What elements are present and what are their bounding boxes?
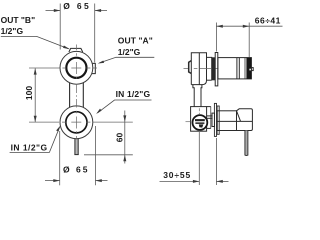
upper body block [191,53,211,85]
lower cover plate [217,106,219,134]
dim 66÷41: extension lines [215,23,217,52]
arrow dim 60 top (points down to line) [123,115,126,121]
node: right connection tab on top circle [92,63,96,73]
dim 60: extension line from pipe end [84,154,133,156]
bottom circle outer [60,106,93,139]
arrow 30÷55 left [193,180,199,183]
dim 100: dimension line [34,68,36,122]
bottom circle inner [66,112,87,133]
centerline above inlet circle [198,108,200,114]
centerline vertical through circles [75,45,77,139]
svg-text:Ø 65: Ø 65 [63,1,89,11]
svg-text:66÷41: 66÷41 [255,15,281,25]
svg-text:100: 100 [24,86,34,100]
arrow 66÷41 left [216,25,222,28]
wire: neck between circles [70,82,84,109]
arrow dim Ø65 top right [95,9,101,12]
spindle stub [251,68,253,71]
arrowheads for dimensions [34,9,127,182]
neck bottom to flange [207,79,212,81]
handle cylinder [217,111,236,131]
arrow dim Ø65 bottom right [95,179,101,182]
dim Ø65 top: extension lines [59,4,61,50]
stub from body to lower flange [207,116,213,118]
dim Ø65 top: dimension line tails [46,10,61,12]
dim 30÷55: extension lines [198,132,200,185]
centerline tick left of lower body [186,121,191,123]
leader IN left [10,127,60,152]
dim 60: dimension line [124,111,126,164]
arrow dim 60 bottom (points up to line) [123,155,126,161]
arrow dim 100 down [34,116,37,122]
lower wall flange plate [214,103,216,136]
arrow dim 100 up [34,68,37,74]
connecting pipe between bodies [193,85,202,107]
knob mid line [216,120,252,122]
arrow dim Ø65 top left [54,9,60,12]
top circle outer (OUT port boss) [60,51,93,84]
svg-text:60: 60 [115,132,125,142]
svg-text:Ø 65: Ø 65 [63,164,88,174]
lever rod [245,131,248,156]
svg-text:IN 1/2"G: IN 1/2"G [11,142,48,152]
dim 30÷55: dimension line [160,180,200,182]
dim Ø65 bottom: extension lines [59,131,61,185]
inner pipe line through body [198,53,200,85]
centerline horizontal top circle [29,67,97,69]
svg-text:1/2"G: 1/2"G [1,26,24,36]
lever front diagonal [237,111,241,122]
leader OUT B [1,36,69,48]
arrow 66÷41 right [243,25,249,28]
inlet circle (side) [193,115,208,130]
top circle inner bold (1/2"G thread) [66,58,86,78]
svg-text:IN 1/2"G: IN 1/2"G [116,89,151,99]
leader IN right [98,100,152,113]
node: top connection tab on top circle [69,48,83,52]
cartridge cylinder [218,58,252,79]
lever knob [237,109,253,131]
OUT B port bump on left [189,61,192,74]
upper spacer (dark) [212,58,215,80]
node: outlet pipe below bottom circle [74,138,78,155]
svg-text:1/2"G: 1/2"G [118,47,141,57]
centerline upper body [184,68,219,70]
svg-text:OUT "B": OUT "B" [1,15,36,25]
dim 66÷41: dimension line [216,25,282,27]
leader OUT A [100,57,155,63]
arrow dim Ø65 bottom left [53,179,59,182]
arrow 30÷55 right [216,180,222,183]
dim Ø65 bottom: dimension line tails [45,180,60,182]
cartridge end black band [246,58,251,79]
svg-text:30÷55: 30÷55 [163,170,190,180]
centerline horizontal bottom circle [29,121,133,123]
upper wall flange plate [215,53,218,86]
lower mixer body [191,107,211,132]
lower stub collar [212,113,215,126]
inlet internals [195,119,205,128]
svg-text:OUT "A": OUT "A" [118,35,153,45]
